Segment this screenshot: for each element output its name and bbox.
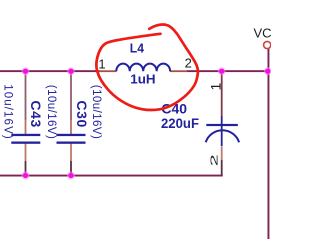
svg-text:C43: C43 <box>28 100 44 127</box>
junction dot C43 top <box>22 67 30 75</box>
junction dot C30 bottom <box>67 172 75 180</box>
junction dot C40 branch <box>218 67 226 75</box>
svg-text:1uH: 1uH <box>130 72 155 87</box>
capacitor C43 plates <box>11 134 40 144</box>
power port VCC open circle <box>264 41 271 48</box>
capacitor C40 plus-mark vertical tick <box>221 116 223 146</box>
svg-text:(10u/16V): (10u/16V) <box>90 85 102 139</box>
capacitor C30 pin 2 (bottom lead) <box>70 144 72 162</box>
svg-text:L4: L4 <box>130 41 144 55</box>
capacitor C40 pin 1 (top lead) <box>221 71 223 117</box>
svg-text:(10u/16V): (10u/16V) <box>45 85 57 139</box>
inductor L4 pin 2 lead <box>170 70 188 72</box>
wire top rail right segment <box>187 70 269 72</box>
capacitor C30 plates <box>57 134 86 144</box>
capacitor C40 positive flat plate <box>206 124 238 126</box>
wire top rail left segment <box>0 70 100 72</box>
junction dot VCC branch <box>264 67 272 75</box>
svg-text:10u/16V): 10u/16V) <box>2 84 14 139</box>
svg-text:2: 2 <box>208 154 220 166</box>
svg-text:1: 1 <box>98 56 105 71</box>
capacitor C43 pin 2 (bottom lead) <box>25 144 27 162</box>
wire bottom rail <box>0 175 223 177</box>
wire VCC vertical drop <box>268 49 270 240</box>
svg-text:1: 1 <box>207 83 223 91</box>
capacitor C30 pin 1 (top lead) <box>70 71 72 120</box>
junction dot C30 top <box>67 67 75 75</box>
svg-text:220uF: 220uF <box>161 116 199 131</box>
red annotation ellipse around L4 <box>96 24 198 110</box>
junction dot C43 bottom <box>22 172 30 180</box>
svg-text:2: 2 <box>185 56 192 71</box>
capacitor C40 pin 2 (bottom lead) <box>221 147 223 160</box>
capacitor C40 curved plate <box>206 130 239 142</box>
capacitor C43 pin 1 (top lead) <box>25 71 27 120</box>
svg-text:VCC: VCC <box>254 26 272 41</box>
inductor L4 pin 1 lead <box>98 70 117 72</box>
svg-text:C30: C30 <box>74 100 90 127</box>
inductor L4 coil arcs <box>116 64 170 72</box>
